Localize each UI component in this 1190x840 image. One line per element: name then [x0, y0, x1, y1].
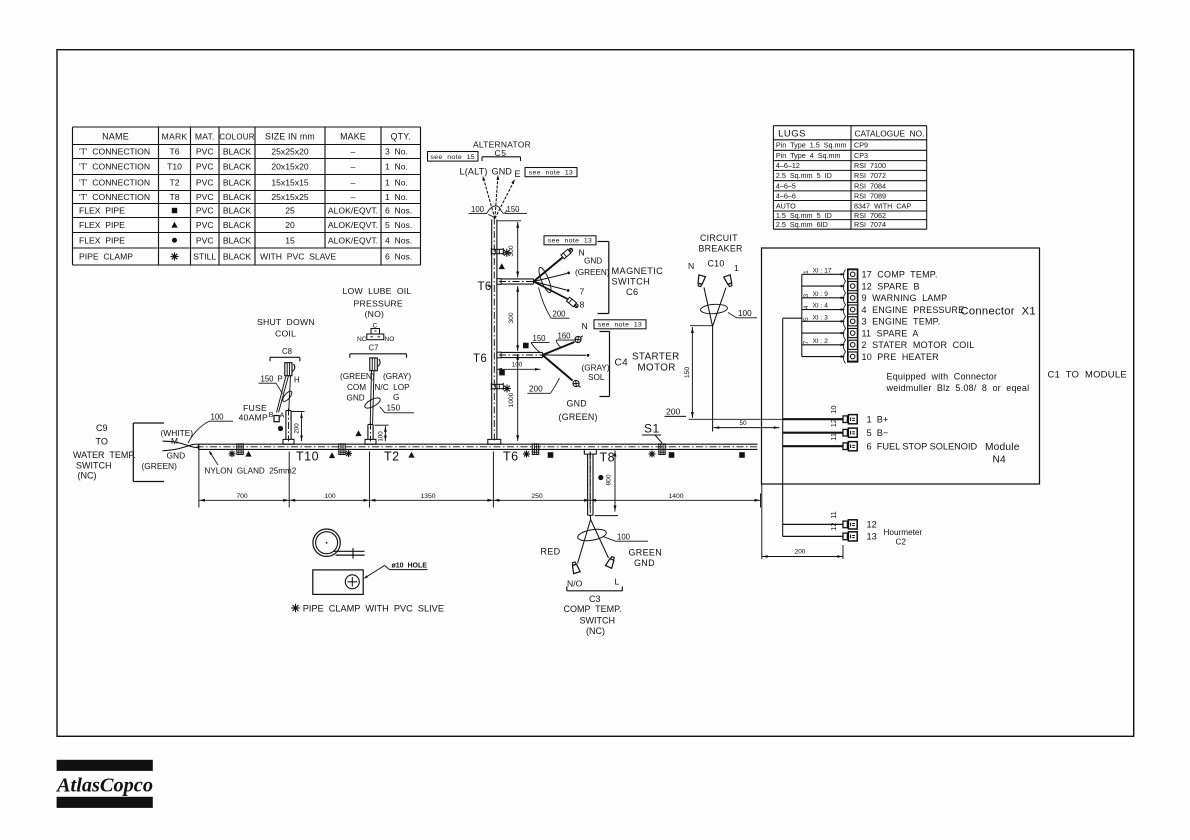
- svg-text:8347 WITH CAP: 8347 WITH CAP: [854, 201, 911, 210]
- wire and terminal B+: [783, 405, 889, 424]
- svg-text:A: A: [280, 411, 285, 420]
- magnetic switch bracket: [598, 242, 609, 314]
- svg-text:PVC: PVC: [196, 206, 214, 216]
- svg-text:PIPE CLAMP WITH PVC SLIVE: PIPE CLAMP WITH PVC SLIVE: [303, 604, 444, 614]
- svg-text:PVC: PVC: [196, 147, 214, 157]
- circuit breaker lug 1: [724, 275, 734, 287]
- svg-text:RSI 7100: RSI 7100: [854, 161, 886, 170]
- svg-text:QTY.: QTY.: [391, 132, 411, 142]
- svg-text:200: 200: [294, 423, 301, 434]
- circuit breaker lug N: [696, 275, 705, 287]
- svg-text:BLACK: BLACK: [223, 235, 251, 245]
- svg-text:CP3: CP3: [854, 151, 868, 160]
- parts list table (T connections, flex pipes, pipe clamp): [73, 127, 421, 265]
- svg-text:15x15x15: 15x15x15: [271, 178, 308, 188]
- svg-text:MAT.: MAT.: [195, 132, 215, 142]
- svg-text:6 FUEL STOP SOLENOID: 6 FUEL STOP SOLENOID: [867, 442, 978, 452]
- svg-text:200: 200: [666, 407, 681, 417]
- C3 wire labels RED GREEN GND: [541, 547, 663, 569]
- wire loop at coil: [281, 390, 293, 403]
- flex pipe mark on riser: [499, 263, 505, 269]
- svg-text:XI : 9: XI : 9: [813, 291, 829, 298]
- dimension 100 (T2 branch): [375, 425, 389, 441]
- junction label T6 (magnetic switch stub): [478, 281, 492, 293]
- pipe clamp detail - hole callout: [364, 563, 428, 579]
- flex pipe mark on T8 drop: [598, 475, 603, 480]
- length label 150 (C7 wires): [380, 404, 415, 413]
- length label 200 (starter GND): [528, 378, 560, 394]
- svg-text:T6: T6: [473, 353, 487, 365]
- connector X1 terminal strip: [843, 269, 857, 364]
- svg-text:see note 13: see note 13: [548, 238, 593, 245]
- svg-text:1000: 1000: [508, 392, 515, 407]
- flex pipe mark 20mm: [408, 452, 414, 458]
- svg-text:S1: S1: [644, 422, 660, 436]
- wire coil H to T10 branch: [289, 376, 291, 411]
- svg-text:'T' CONNECTION: 'T' CONNECTION: [79, 147, 150, 157]
- svg-text:12: 12: [829, 419, 838, 427]
- wire to magnetic switch pin 8: [534, 282, 579, 309]
- svg-text:C10: C10: [708, 259, 725, 269]
- length label 100 (alternator wires): [469, 205, 495, 219]
- svg-text:150: 150: [387, 404, 401, 413]
- svg-text:see note 13: see note 13: [529, 170, 574, 177]
- T6 stub to magnetic switch: [488, 279, 536, 287]
- svg-text:13: 13: [867, 532, 877, 542]
- T6 stub to starter motor: [497, 352, 545, 358]
- junction label T6 (starter stub): [473, 353, 487, 365]
- wire to alternator E: [495, 179, 515, 219]
- svg-text:COLOUR: COLOUR: [219, 133, 254, 142]
- C3 lug L: [605, 556, 616, 569]
- C9 water temp switch label: [73, 423, 136, 481]
- svg-text:COMP TEMP.: COMP TEMP.: [564, 604, 622, 614]
- svg-text:15: 15: [285, 235, 295, 245]
- svg-text:AtlasCopco: AtlasCopco: [55, 776, 153, 797]
- pipe clamp on lower riser: [491, 383, 511, 393]
- flex pipe mark near T2: [355, 430, 361, 436]
- svg-text:BLACK: BLACK: [223, 178, 251, 188]
- svg-text:2.5 Sq.mm 6ID: 2.5 Sq.mm 6ID: [776, 220, 828, 229]
- fuse terminal labels B A: [269, 410, 285, 419]
- svg-text:1: 1: [734, 263, 739, 273]
- svg-text:see note 15: see note 15: [430, 154, 475, 161]
- C3 pin labels N/O L: [567, 577, 620, 589]
- svg-text:5 Nos.: 5 Nos.: [385, 220, 412, 230]
- harness tail wires to C9: [163, 441, 199, 451]
- svg-text:150: 150: [533, 334, 547, 343]
- svg-text:40AMP: 40AMP: [239, 413, 269, 423]
- pressure switch contact labels: [357, 336, 394, 343]
- svg-text:MAGNETIC: MAGNETIC: [612, 266, 664, 276]
- svg-text:100: 100: [471, 205, 485, 214]
- module N4 enclosure box: [762, 248, 1040, 484]
- length label 100 (C9 tail): [188, 413, 233, 444]
- wire to magnetic switch N: [534, 247, 574, 281]
- svg-text:ALOK/EQVT.: ALOK/EQVT.: [328, 235, 378, 245]
- svg-text:SWITCH: SWITCH: [76, 461, 112, 471]
- dimension 100 (starter stub length): [497, 361, 541, 370]
- fuse symbol: [274, 416, 279, 422]
- svg-text:B: B: [269, 410, 274, 419]
- T-junction T10 foot: [283, 409, 294, 445]
- svg-text:12 SPARE B: 12 SPARE B: [862, 281, 920, 291]
- svg-text:N/O: N/O: [567, 579, 583, 589]
- svg-text:T6: T6: [503, 450, 519, 464]
- breaker feed line to module: [689, 418, 783, 420]
- svg-text:(GREEN): (GREEN): [142, 461, 178, 471]
- svg-text:6 Nos.: 6 Nos.: [385, 206, 412, 216]
- length label 160 (starter N): [556, 332, 576, 348]
- wire loop at magnetic switch: [537, 266, 554, 294]
- svg-text:C6: C6: [626, 287, 639, 297]
- svg-text:BLACK: BLACK: [223, 220, 251, 230]
- svg-text:BLACK: BLACK: [223, 162, 251, 172]
- svg-text:PIPE CLAMP: PIPE CLAMP: [79, 252, 133, 262]
- wire loop at C7: [363, 396, 381, 410]
- svg-text:SOL: SOL: [588, 373, 605, 382]
- flex pipe marks before T2: [329, 444, 352, 458]
- svg-text:RSI 7084: RSI 7084: [854, 181, 886, 190]
- starter pin label N: [582, 321, 588, 331]
- svg-text:12: 12: [829, 523, 838, 531]
- starter motor title: [632, 352, 680, 374]
- drawing border frame: [57, 50, 1134, 737]
- svg-text:250: 250: [531, 493, 543, 500]
- svg-text:100: 100: [738, 309, 752, 318]
- connector C7 label and bracket: [350, 344, 407, 358]
- svg-text:CIRCUIT: CIRCUIT: [700, 233, 738, 243]
- hourmeter wire 12: [783, 511, 877, 529]
- dimension 800 (T8 drop): [595, 451, 618, 516]
- svg-text:STARTER: STARTER: [632, 352, 680, 363]
- svg-text:GND: GND: [167, 451, 186, 461]
- svg-text:200: 200: [529, 385, 543, 394]
- svg-text:Equipped with Connector: Equipped with Connector: [887, 372, 998, 382]
- svg-text:8: 8: [580, 300, 585, 310]
- C9 wire labels: [142, 428, 194, 471]
- svg-text:PVC: PVC: [196, 235, 214, 245]
- svg-text:(NO): (NO): [365, 309, 385, 319]
- svg-text:–: –: [351, 178, 356, 188]
- note box: see note 13 (magnetic switch): [544, 236, 596, 245]
- svg-text:T10: T10: [167, 162, 182, 172]
- svg-text:50: 50: [739, 420, 747, 427]
- svg-text:L: L: [615, 577, 620, 587]
- svg-text:C7: C7: [369, 344, 379, 353]
- module feeder bus: [782, 318, 784, 536]
- T-junction T6 foot and riser to alternator: [488, 218, 501, 445]
- connector C8 label and bracket: [270, 347, 300, 361]
- svg-text:(GRAY): (GRAY): [383, 372, 411, 381]
- svg-text:PVC: PVC: [196, 220, 214, 230]
- svg-text:N4: N4: [993, 455, 1007, 466]
- bracket over alternator pins: [482, 157, 521, 161]
- starter pin labels GRAY SOL: [582, 364, 610, 383]
- svg-text:3 ENGINE TEMP.: 3 ENGINE TEMP.: [862, 317, 941, 327]
- svg-text:2 STATER MOTOR COIL: 2 STATER MOTOR COIL: [862, 340, 975, 350]
- svg-text:2.5 Sq.mm 5 ID: 2.5 Sq.mm 5 ID: [776, 171, 832, 180]
- svg-text:H: H: [294, 376, 300, 385]
- svg-text:weidmuller Blz 5.08/ 8 or: weidmuller Blz 5.08/ 8 or eqeal: [886, 383, 1030, 393]
- svg-text:(NC): (NC): [78, 471, 97, 481]
- svg-text:T6: T6: [169, 147, 179, 157]
- dimension 1000 (stub to harness): [508, 354, 519, 441]
- T-junction T8 foot and drop pipe: [584, 450, 596, 518]
- svg-text:200: 200: [795, 549, 806, 556]
- svg-text:C4: C4: [615, 358, 629, 369]
- hourmeter wire 13: [783, 523, 877, 542]
- svg-text:Hourmeter: Hourmeter: [884, 528, 923, 537]
- svg-text:C2: C2: [896, 538, 907, 547]
- svg-text:SWITCH: SWITCH: [612, 277, 651, 287]
- svg-text:RSI 7062: RSI 7062: [854, 211, 886, 220]
- svg-text:N: N: [688, 261, 694, 271]
- wire to magnetic switch pin 7: [534, 282, 570, 292]
- svg-text:4 ENGINE PRESSURE: 4 ENGINE PRESSURE: [862, 305, 965, 315]
- svg-text:(GREEN): (GREEN): [340, 372, 375, 381]
- length label 100 (C10): [728, 309, 757, 318]
- magnetic switch title C6: [612, 266, 664, 297]
- svg-text:100: 100: [324, 493, 336, 500]
- svg-text:100: 100: [378, 431, 385, 442]
- flex pipe mark below starter stub: [499, 370, 505, 376]
- svg-text:1 No.: 1 No.: [385, 178, 408, 188]
- svg-text:11: 11: [829, 511, 838, 519]
- note box: see note 13 (starter): [594, 320, 646, 329]
- svg-text:11: 11: [829, 433, 838, 441]
- svg-text:300: 300: [508, 245, 515, 256]
- wire to starter N: [543, 333, 585, 355]
- svg-text:4–6–5: 4–6–5: [776, 181, 796, 190]
- junction label T10: [296, 450, 319, 464]
- svg-text:G: G: [393, 393, 399, 402]
- svg-text:Pin Type 4 Sq.mm: Pin Type 4 Sq.mm: [776, 151, 841, 160]
- wire and terminal FUEL: [783, 433, 978, 452]
- svg-text:RSI 7072: RSI 7072: [854, 171, 886, 180]
- length label 200 (magnetic switch): [539, 288, 570, 319]
- svg-text:T2: T2: [384, 450, 400, 464]
- svg-text:1 B+: 1 B+: [867, 415, 889, 425]
- svg-text:150: 150: [261, 375, 275, 384]
- svg-text:RSI 7074: RSI 7074: [854, 220, 886, 229]
- flex pipe mark 25 on riser: [523, 343, 529, 349]
- svg-text:CATALOGUE NO.: CATALOGUE NO.: [855, 128, 925, 138]
- pipe clamp detail - clamp: [313, 529, 365, 559]
- svg-text:ø10 HOLE: ø10 HOLE: [392, 563, 428, 570]
- svg-text:'T' CONNECTION: 'T' CONNECTION: [79, 192, 150, 202]
- alternator title: [473, 140, 531, 159]
- svg-text:see note 13: see note 13: [598, 322, 643, 329]
- T-junction T2 foot: [365, 423, 376, 445]
- svg-text:T8: T8: [169, 192, 179, 202]
- svg-text:T10: T10: [296, 450, 319, 464]
- X1 wire number tags: [803, 267, 832, 345]
- dimension 150 (C10 drop): [684, 326, 713, 418]
- wire to alternator GND: [495, 175, 499, 219]
- svg-text:NAME: NAME: [102, 132, 129, 142]
- svg-text:300: 300: [508, 312, 515, 323]
- svg-text:C3: C3: [589, 594, 601, 604]
- svg-text:FLEX PIPE: FLEX PIPE: [79, 220, 125, 230]
- svg-text:SWITCH: SWITCH: [580, 616, 616, 626]
- svg-text:GND: GND: [347, 394, 365, 403]
- svg-text:MARK: MARK: [162, 132, 188, 142]
- svg-text:1 No.: 1 No.: [385, 162, 408, 172]
- circuit breaker pin labels N 1: [688, 261, 739, 273]
- svg-text:3: 3: [803, 293, 810, 297]
- length label 200 (breaker feed): [665, 407, 687, 417]
- pipe clamp marks after T6: [523, 444, 553, 458]
- svg-text:GND: GND: [492, 167, 513, 177]
- svg-text:FUSE: FUSE: [243, 403, 267, 413]
- svg-text:Module: Module: [985, 442, 1020, 453]
- pipe clamp legend: [291, 604, 444, 614]
- svg-text:1400: 1400: [668, 493, 683, 500]
- svg-text:MOTOR: MOTOR: [638, 363, 676, 374]
- svg-text:WITH PVC SLAVE: WITH PVC SLAVE: [260, 252, 337, 262]
- junction label T8: [600, 451, 616, 465]
- junction label T2: [384, 450, 400, 464]
- svg-text:FLEX PIPE: FLEX PIPE: [79, 235, 125, 245]
- svg-text:10: 10: [829, 405, 838, 413]
- length label 150 (starter): [531, 334, 550, 353]
- svg-text:FLEX PIPE: FLEX PIPE: [79, 206, 125, 216]
- lugs catalogue table: [773, 126, 926, 230]
- svg-text:4–6–6: 4–6–6: [776, 191, 796, 200]
- svg-text:800: 800: [605, 474, 612, 485]
- C9 bracket: [133, 423, 164, 482]
- low lube oil pressure title: [343, 286, 412, 319]
- svg-text:9 WARNING LAMP: 9 WARNING LAMP: [862, 293, 948, 303]
- alternator pin labels L(ALT) GND E: [460, 167, 521, 180]
- svg-text:Connector X1: Connector X1: [961, 306, 1036, 318]
- svg-text:7: 7: [803, 340, 810, 344]
- harness length dimension chain 700/100/1350/250/1400: [199, 444, 761, 508]
- svg-text:C9: C9: [96, 423, 108, 433]
- svg-text:–: –: [351, 147, 356, 157]
- svg-text:(NC): (NC): [586, 626, 605, 636]
- svg-text:25x15x25: 25x15x25: [271, 192, 308, 202]
- wire to starter GND: [543, 355, 583, 390]
- dimension 50: [714, 420, 780, 429]
- svg-text:11 SPARE A: 11 SPARE A: [862, 328, 919, 338]
- label Connector X1: [961, 306, 1036, 318]
- label C1 TO MODULE: [1048, 369, 1127, 380]
- svg-text:C1 TO MODULE: C1 TO MODULE: [1048, 369, 1127, 380]
- svg-text:'T' CONNECTION: 'T' CONNECTION: [79, 178, 150, 188]
- svg-text:4–6–12: 4–6–12: [776, 161, 800, 170]
- wires from T8 to comp temp switch: [578, 515, 609, 563]
- coil pin labels 150 P H: [259, 375, 300, 394]
- svg-text:PVC: PVC: [196, 178, 214, 188]
- circuit breaker title: [699, 233, 743, 269]
- svg-text:ALOK/EQVT.: ALOK/EQVT.: [328, 206, 378, 216]
- svg-text:–: –: [351, 162, 356, 172]
- svg-text:12: 12: [867, 520, 877, 530]
- dimension 200 (hourmeter): [762, 484, 843, 559]
- svg-text:LOW LUBE OIL: LOW LUBE OIL: [343, 286, 412, 296]
- svg-text:4 Nos.: 4 Nos.: [385, 235, 412, 245]
- pipe clamp mark near left end: [229, 444, 252, 457]
- note box: see note 15: [428, 152, 479, 162]
- svg-text:700: 700: [236, 493, 248, 500]
- svg-text:1350: 1350: [420, 493, 435, 500]
- svg-text:C8: C8: [282, 347, 292, 356]
- C3 lug N/O: [570, 561, 580, 573]
- dimension 300 (alternator to T6): [497, 221, 521, 278]
- svg-text:(GRAY): (GRAY): [582, 364, 610, 373]
- svg-text:XI : 3: XI : 3: [813, 314, 829, 321]
- svg-text:BLACK: BLACK: [223, 206, 251, 216]
- circuit breaker drop wire: [712, 326, 714, 432]
- X1 wire bundle and feeder: [783, 273, 845, 358]
- svg-text:200: 200: [553, 310, 567, 319]
- svg-text:LUGS: LUGS: [778, 128, 806, 139]
- svg-text:20: 20: [285, 220, 295, 230]
- svg-text:25: 25: [285, 206, 295, 216]
- circuit breaker wires: [704, 288, 726, 326]
- weidmuller note: [886, 372, 1030, 394]
- note box: see note 13 (alternator): [525, 168, 577, 177]
- Atlas Copco logo: [55, 760, 153, 808]
- svg-text:Pin Type 1.5 Sq.mm: Pin Type 1.5 Sq.mm: [776, 141, 847, 150]
- length label 150 (alternator wires): [487, 205, 528, 214]
- svg-text:–: –: [351, 192, 356, 202]
- svg-text:10 PRE HEATER: 10 PRE HEATER: [862, 352, 940, 362]
- svg-text:XI : 17: XI : 17: [813, 267, 832, 274]
- comp temp switch title C3: [564, 594, 622, 636]
- starter GND net label: [559, 399, 598, 423]
- svg-text:XI : 2: XI : 2: [813, 338, 829, 345]
- svg-text:M: M: [171, 436, 178, 446]
- svg-text:100: 100: [617, 533, 631, 542]
- svg-text:E: E: [515, 169, 521, 179]
- svg-text:NYLON GLAND 25mm2: NYLON GLAND 25mm2: [205, 467, 297, 476]
- svg-text:100: 100: [211, 413, 225, 422]
- svg-text:(GREEN): (GREEN): [559, 412, 598, 422]
- length label 100 (C3 wires): [603, 533, 648, 542]
- flex pipe mark 15 near fuse: [278, 426, 283, 431]
- svg-text:NC: NC: [357, 336, 367, 343]
- svg-text:MAKE: MAKE: [340, 132, 366, 142]
- svg-text:L(ALT): L(ALT): [460, 167, 488, 177]
- svg-text:20x15x20: 20x15x20: [271, 162, 308, 172]
- svg-text:COIL: COIL: [275, 329, 296, 339]
- wire loop at C10: [700, 303, 728, 314]
- svg-text:150: 150: [684, 367, 691, 379]
- svg-text:4: 4: [803, 305, 810, 309]
- svg-text:3 No.: 3 No.: [385, 147, 408, 157]
- svg-text:1 No.: 1 No.: [385, 192, 408, 202]
- dimension 300 (T6 to T6 stub): [508, 286, 519, 351]
- svg-text:SIZE IN mm: SIZE IN mm: [265, 132, 315, 142]
- svg-text:150: 150: [507, 205, 521, 214]
- svg-text:T8: T8: [600, 451, 616, 465]
- svg-text:GND: GND: [634, 558, 655, 568]
- nylon gland label: [205, 451, 297, 476]
- svg-text:CP9: CP9: [854, 141, 868, 150]
- fuse 40AMP label: [239, 403, 269, 423]
- svg-text:AUTO: AUTO: [776, 201, 796, 210]
- svg-text:PVC: PVC: [196, 192, 214, 202]
- svg-text:NO: NO: [385, 336, 395, 343]
- svg-text:T2: T2: [169, 178, 179, 188]
- svg-text:STILL: STILL: [193, 252, 216, 262]
- starter bracket C4: [600, 332, 629, 397]
- wire coil P to fuse: [277, 376, 289, 413]
- svg-text:SHUT DOWN: SHUT DOWN: [257, 317, 315, 327]
